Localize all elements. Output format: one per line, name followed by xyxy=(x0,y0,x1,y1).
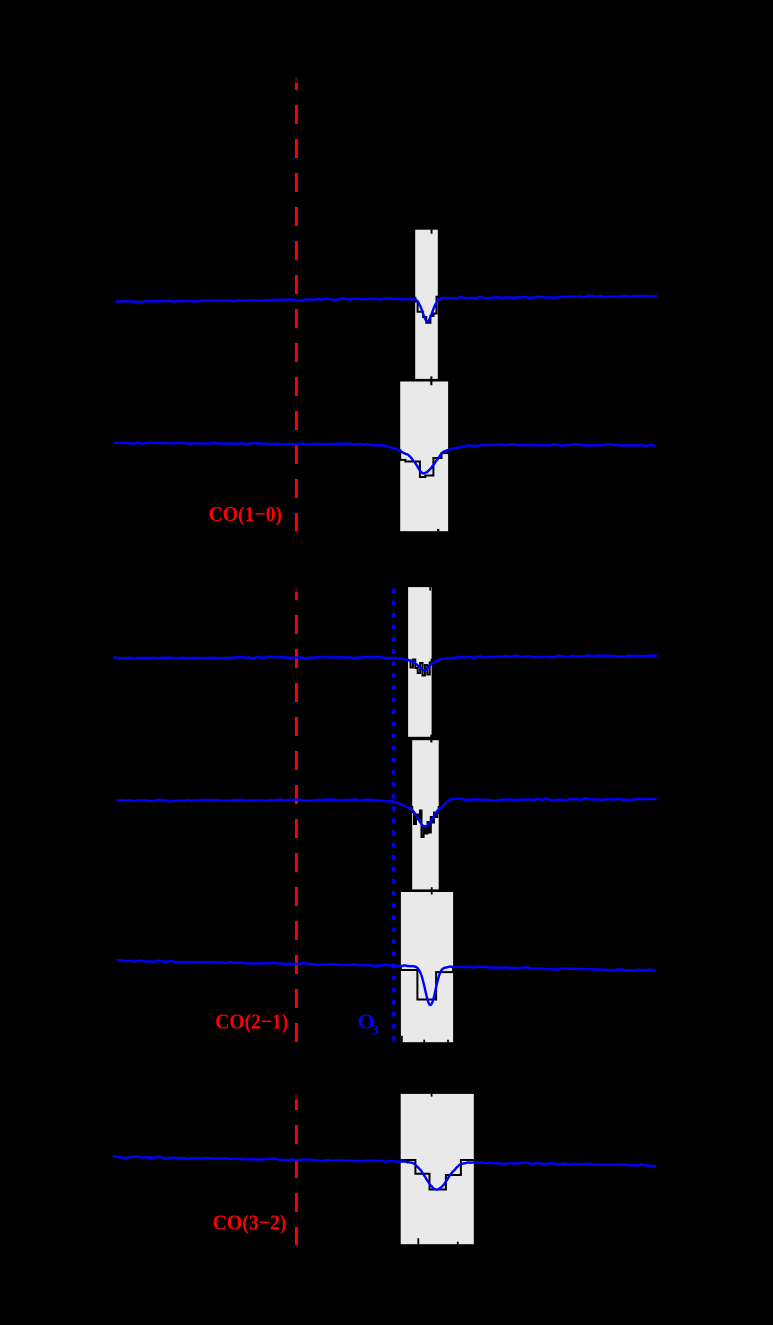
spectrum 3 xyxy=(113,655,658,670)
box4 CO(2-1) b shaded band xyxy=(412,740,439,889)
svg-text:3: 3 xyxy=(372,1023,379,1038)
spectrum 5 xyxy=(117,960,656,1005)
spectrum 1 xyxy=(116,296,657,322)
spectrum 2 xyxy=(114,443,655,474)
svg-text:CO(2−1): CO(2−1) xyxy=(215,1009,288,1033)
histogram 1 xyxy=(413,297,438,323)
axis ticks xyxy=(431,230,433,234)
red dashed line panel2 xyxy=(295,588,298,1043)
red dashed line panel1 xyxy=(295,77,298,531)
red dashed line panel3 xyxy=(295,1094,298,1245)
box5 CO(2-1) c shaded band xyxy=(401,892,453,1042)
histogram 3 xyxy=(408,659,432,676)
box2 CO(1-0) spectrum b shaded band xyxy=(400,382,448,532)
box3 CO(2-1) a shaded band xyxy=(408,587,432,737)
svg-text:CO(3−2): CO(3−2) xyxy=(213,1210,287,1234)
histogram 2 xyxy=(400,449,447,477)
box1 CO(1-0) spectrum a shaded band xyxy=(415,230,438,379)
histogram 4 xyxy=(412,806,439,837)
box6 CO(3-2) shaded band xyxy=(401,1094,474,1244)
spectrum 4 xyxy=(117,798,657,826)
spectrum 6 xyxy=(113,1157,656,1190)
histogram 6 xyxy=(401,1160,474,1190)
svg-text:CO(1−0): CO(1−0) xyxy=(209,502,283,526)
histogram 5 xyxy=(401,966,453,1000)
blue dotted line O3 xyxy=(392,589,395,1043)
